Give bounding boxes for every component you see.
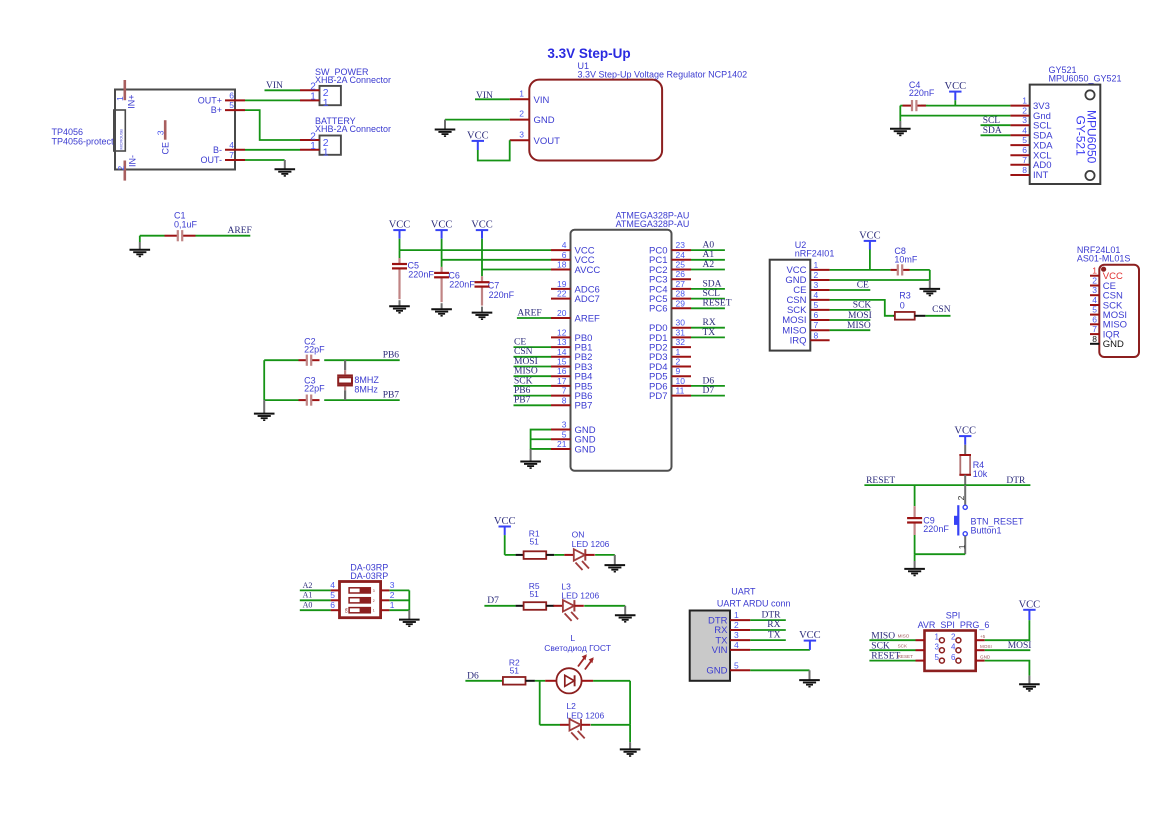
DA-03RP slide switch 2 <box>349 598 370 603</box>
BATTERY pin 2 <box>300 139 320 141</box>
svg-text:GND: GND <box>534 115 555 126</box>
GY521 pin 8 INT <box>1010 174 1029 176</box>
resistor R4 10k <box>964 445 966 455</box>
ATMEGA pin 30 PD0 <box>672 327 692 329</box>
svg-text:24: 24 <box>676 250 686 260</box>
wire VCC net to ATMEGA pin 18 AVCC <box>482 269 551 271</box>
ATMEGA pin 6 VCC <box>551 259 571 261</box>
svg-text:1: 1 <box>373 609 375 613</box>
svg-text:VIN: VIN <box>712 645 728 656</box>
GY521 pin 1 3V3 <box>1010 105 1029 107</box>
svg-text:MOSI: MOSI <box>980 644 992 649</box>
wire CSN from U2 pin 4 to R3 <box>830 300 894 316</box>
UART pin 2 RX <box>730 629 750 631</box>
ATMEGA pin 27 PC4 <box>672 288 692 290</box>
UART pin 1 DTR <box>730 619 750 621</box>
svg-text:A2: A2 <box>303 581 313 590</box>
svg-text:22pF: 22pF <box>304 384 325 394</box>
wire U1 VOUT to VCC <box>478 140 510 160</box>
svg-text:A2: A2 <box>703 260 715 270</box>
svg-text:6: 6 <box>1022 145 1027 155</box>
ATMEGA pin 26 PC3 <box>672 278 692 280</box>
svg-text:D7: D7 <box>703 386 715 396</box>
ATMEGA pin 7 PB6 <box>551 395 571 397</box>
svg-text:5: 5 <box>330 590 335 600</box>
ATMEGA pin 18 AVCC <box>551 269 571 271</box>
TP4056 pin 2 IN- (bottom) <box>124 161 127 181</box>
svg-text:2: 2 <box>956 495 966 500</box>
svg-text:17: 17 <box>557 376 567 386</box>
NRF24L01 pin 6 MISO <box>1090 323 1099 325</box>
svg-text:5: 5 <box>562 429 567 439</box>
TP4056 pin 3 CE (middle) <box>164 120 167 140</box>
NRF24L01 pin 5 MOSI <box>1090 314 1099 316</box>
ATMEGA pin 8 PB7 <box>551 404 571 406</box>
GY521 pin 6 XCL <box>1010 154 1029 156</box>
svg-text:0: 0 <box>900 300 905 310</box>
ground at C6 <box>441 303 443 309</box>
svg-text:2: 2 <box>814 270 819 280</box>
svg-text:A1: A1 <box>703 250 715 260</box>
NRF24L01 pin 4 SCK <box>1090 304 1099 306</box>
svg-text:AVR_SPI_PRG_6: AVR_SPI_PRG_6 <box>918 620 990 630</box>
svg-text:7: 7 <box>814 320 819 330</box>
svg-text:3: 3 <box>519 129 524 139</box>
svg-text:4: 4 <box>814 290 819 300</box>
wire DA-03RP ground bus vertical <box>408 590 410 610</box>
svg-text:DTR: DTR <box>762 610 782 620</box>
ATMEGA pin 13 PB1 <box>551 346 571 348</box>
svg-text:CE: CE <box>160 142 170 155</box>
IC U3 TP4056 battery charger box <box>115 90 235 170</box>
svg-text:PB7: PB7 <box>575 401 593 412</box>
svg-text:1: 1 <box>957 544 967 549</box>
U2 pin 1 VCC <box>810 269 829 271</box>
U2 pin 4 CSN <box>810 299 829 301</box>
SPI header circle pin 3 <box>939 648 944 653</box>
wire ATMEGA GND pins to ground <box>531 430 551 449</box>
capacitor C9 220nF <box>914 485 916 506</box>
svg-text:UART: UART <box>731 587 756 597</box>
svg-text:31: 31 <box>676 327 686 337</box>
GY521 pin 5 XDA <box>1010 144 1029 146</box>
svg-text:3: 3 <box>1022 115 1027 125</box>
wire D7 to R5 <box>484 605 515 607</box>
svg-text:51: 51 <box>510 666 520 676</box>
ATMEGA pin 12 PB0 <box>551 336 571 338</box>
NRF24L01 pin 1 VCC <box>1090 275 1099 277</box>
svg-text:SPI: SPI <box>946 611 961 621</box>
ATMEGA pin 23 PC0 <box>672 249 692 251</box>
svg-text:AREF: AREF <box>575 313 601 324</box>
svg-text:MISO: MISO <box>871 631 895 641</box>
svg-text:CSN: CSN <box>932 305 951 315</box>
svg-text:RX: RX <box>767 620 780 630</box>
SPI pin stub left SCK <box>916 649 925 651</box>
wire net D7 from ATMEGA <box>691 395 725 397</box>
svg-text:8: 8 <box>1022 165 1027 175</box>
svg-text:3: 3 <box>156 130 166 135</box>
svg-text:220nF: 220nF <box>923 524 949 534</box>
svg-text:11: 11 <box>676 386 685 396</box>
svg-text:1: 1 <box>390 600 395 610</box>
svg-text:5: 5 <box>734 660 739 670</box>
GY521 pin 7 AD0 <box>1010 164 1029 166</box>
wire net A1 from ATMEGA <box>691 259 725 261</box>
svg-text:21: 21 <box>557 439 567 449</box>
ATMEGA pin 16 PB4 <box>551 375 571 377</box>
wire net SDA from ATMEGA <box>691 288 725 290</box>
wire B+ to BATTERY pin 2 <box>245 110 300 140</box>
svg-text:LED 1206: LED 1206 <box>566 711 604 721</box>
ATMEGA pin 22 ADC7 <box>551 298 571 300</box>
svg-text:7: 7 <box>229 150 234 160</box>
svg-text:1: 1 <box>323 97 329 109</box>
ATMEGA pin 1 PD3 <box>672 356 692 358</box>
svg-text:2: 2 <box>734 620 739 630</box>
svg-text:26: 26 <box>676 269 686 279</box>
U2 pin 3 CE <box>810 289 829 291</box>
wire MOSI from U2 pin 6 <box>830 319 871 321</box>
svg-text:7: 7 <box>1092 324 1097 334</box>
svg-text:VCC: VCC <box>859 230 881 241</box>
svg-text:Светодиод ГОСТ: Светодиод ГОСТ <box>544 643 611 653</box>
wire net A2 from ATMEGA <box>691 269 725 271</box>
svg-text:CSN: CSN <box>514 347 533 357</box>
svg-text:MPU6050_GY521: MPU6050_GY521 <box>1049 74 1122 84</box>
svg-text:3: 3 <box>814 280 819 290</box>
U1 pin 2 GND <box>510 119 530 121</box>
ATMEGA pin 19 ADC6 <box>551 288 571 290</box>
wire D6 to R2 <box>465 680 503 682</box>
wire VIN to U1 pin 1 <box>475 98 510 100</box>
svg-text:5: 5 <box>229 100 234 110</box>
ATMEGA pin 28 PC5 <box>672 298 692 300</box>
svg-text:GND: GND <box>980 655 991 660</box>
svg-text:4: 4 <box>229 140 234 150</box>
wire net A0 from ATMEGA <box>691 249 725 251</box>
svg-text:VCC: VCC <box>945 81 967 92</box>
connector SW_POWER XHB-2A box <box>320 86 341 105</box>
svg-text:AVCC: AVCC <box>575 265 601 276</box>
svg-text:1: 1 <box>115 96 125 101</box>
svg-text:RESET: RESET <box>871 652 900 662</box>
SPI pin stub right +5 <box>976 639 985 641</box>
connector NRF24L01 AS01-ML01S box <box>1099 265 1139 357</box>
svg-text:CE: CE <box>857 280 869 290</box>
svg-text:27: 27 <box>676 279 686 289</box>
wire VCC to R1 <box>505 554 516 556</box>
svg-text:SCK: SCK <box>871 641 890 651</box>
wire RESET to DTR horizontal <box>864 484 1030 486</box>
svg-text:3: 3 <box>562 420 567 430</box>
svg-text:SCK: SCK <box>898 644 908 649</box>
svg-text:TP4056: TP4056 <box>52 127 84 137</box>
wire net MOSI to ATMEGA <box>514 366 552 368</box>
svg-text:VCC: VCC <box>1019 599 1041 610</box>
wire net RX from ATMEGA <box>691 327 725 329</box>
svg-text:8: 8 <box>1092 334 1097 344</box>
svg-text:AS01-ML01S: AS01-ML01S <box>1077 254 1131 264</box>
wire U2 VCC to C8 <box>830 269 891 271</box>
svg-text:GND: GND <box>1103 339 1124 350</box>
svg-text:TX: TX <box>768 630 781 640</box>
svg-text:VCC: VCC <box>389 220 411 231</box>
GY521 pin 4 SDA <box>1010 134 1029 136</box>
wire LED to ground row1 <box>595 554 615 556</box>
svg-text:VOUT: VOUT <box>534 136 561 147</box>
svg-text:6: 6 <box>1092 314 1097 324</box>
svg-text:RESET: RESET <box>866 476 895 486</box>
wire OUT- to ground <box>245 159 285 161</box>
wire net SCK to ATMEGA <box>514 385 552 387</box>
wire net RESET to SPI <box>869 660 915 662</box>
ATMEGA pin 31 PD1 <box>672 336 692 338</box>
SPI header circle pin 1 <box>939 638 944 643</box>
wire DA-03RP pin 3 to ground bus <box>389 589 409 591</box>
wire SDA to GY521 pin 4 <box>981 134 1011 136</box>
wire net CE to ATMEGA <box>514 346 552 348</box>
svg-text:1: 1 <box>310 92 316 103</box>
svg-text:D7: D7 <box>487 596 499 606</box>
ATMEGA pin 29 PC6 <box>672 307 692 309</box>
ground at TP4056 OUT- <box>284 160 286 169</box>
svg-text:29: 29 <box>676 298 686 308</box>
ground at GY521 <box>899 121 901 129</box>
op-amp U1 NCP1402 body <box>529 80 662 161</box>
svg-text:3: 3 <box>373 589 375 593</box>
ATMEGA pin 10 PD6 <box>672 385 692 387</box>
wire DA-03RP pin 1 to ground bus <box>389 609 409 611</box>
button BTN_RESET Button1 <box>964 485 966 505</box>
svg-text:51: 51 <box>529 589 539 599</box>
svg-text:9: 9 <box>676 366 681 376</box>
svg-text:3.3V Step-Up: 3.3V Step-Up <box>547 46 630 61</box>
wire net MISO to ATMEGA <box>514 375 552 377</box>
wire PB6 crystal top <box>264 359 298 361</box>
svg-text:D6: D6 <box>703 376 715 386</box>
GY521 mounting hole bottom <box>1085 171 1094 180</box>
svg-text:5: 5 <box>1022 135 1027 145</box>
IC U? ATMEGA328P-AU body <box>571 230 672 471</box>
svg-text:MOSI: MOSI <box>1008 641 1032 651</box>
svg-text:22pF: 22pF <box>304 345 325 355</box>
crystal Y1 8MHZ <box>344 360 346 370</box>
ATMEGA pin 24 PC1 <box>672 259 692 261</box>
UART pin 3 TX <box>730 639 750 641</box>
svg-text:6: 6 <box>814 310 819 320</box>
svg-text:INT: INT <box>1033 170 1049 181</box>
svg-text:PD7: PD7 <box>649 391 667 402</box>
wire DA-03RP pin 2 to ground bus <box>389 599 409 601</box>
svg-text:VCC: VCC <box>467 130 489 141</box>
TP4056 pin 4 B- <box>225 149 245 151</box>
DA-03RP slide switch 3 <box>349 608 370 613</box>
svg-text:25: 25 <box>676 260 686 270</box>
svg-text:AREF: AREF <box>517 308 541 318</box>
ATMEGA pin 15 PB3 <box>551 366 571 368</box>
SPI pin stub right MOSI <box>976 649 985 651</box>
ground at C7 <box>481 307 483 313</box>
svg-text:SCL: SCL <box>703 289 721 299</box>
ATMEGA pin 32 PD2 <box>672 346 692 348</box>
SPI header circle pin 5 <box>939 658 944 663</box>
svg-text:OUT+: OUT+ <box>198 95 222 105</box>
svg-text:23: 23 <box>676 240 686 250</box>
svg-text:10: 10 <box>676 376 686 386</box>
GY521 mounting hole top <box>1085 90 1094 99</box>
SPI header circle pin 6 <box>956 658 961 663</box>
TP4056 pin 6 OUT+ <box>225 99 245 101</box>
wire SCK from U2 pin 5 <box>830 309 871 311</box>
wire net RESET from ATMEGA <box>691 307 725 309</box>
svg-text:VCC: VCC <box>471 220 493 231</box>
ATMEGA pin 2 PD4 <box>672 366 692 368</box>
SPI pin stub right GND <box>976 660 985 662</box>
DA-03RP pin 2 <box>381 599 390 601</box>
svg-text:LED 1206: LED 1206 <box>572 539 610 549</box>
svg-text:SCK: SCK <box>514 376 533 386</box>
svg-text:7: 7 <box>562 386 567 396</box>
svg-text:GND: GND <box>575 444 596 455</box>
wire VCC net to ATMEGA pin 6 <box>442 259 551 261</box>
wire net PB7 to ATMEGA <box>514 404 552 406</box>
svg-text:6: 6 <box>951 653 956 662</box>
ATMEGA pin 20 AREF <box>551 317 571 319</box>
svg-text:VCC: VCC <box>431 220 453 231</box>
wire MOSI from SPI <box>985 649 1031 651</box>
wire C4 left down to ground <box>899 106 901 121</box>
ground at SPI <box>1028 676 1030 685</box>
svg-text:6: 6 <box>229 90 234 100</box>
svg-text:PB7: PB7 <box>383 390 400 400</box>
wire net CSN to ATMEGA <box>514 356 552 358</box>
svg-text:5: 5 <box>1092 305 1097 315</box>
svg-text:PB6: PB6 <box>383 351 400 361</box>
U2 pin 6 MOSI <box>810 319 829 321</box>
NRF24L01 pin1 marker dot <box>1101 267 1106 272</box>
ground at DA-03RP <box>408 610 410 619</box>
svg-text:6: 6 <box>330 600 335 610</box>
wire net TX from ATMEGA <box>691 336 725 338</box>
wire C9 bottom to button bottom <box>915 553 966 555</box>
svg-text:XHB-2A Connector: XHB-2A Connector <box>315 124 391 134</box>
svg-text:CE: CE <box>514 338 526 348</box>
ground at row1 LED <box>614 555 616 565</box>
SPI header circle pin 2 <box>956 638 961 643</box>
svg-text:AREF: AREF <box>228 226 252 236</box>
wire net A1 to DA-03RP <box>300 599 331 601</box>
wire SCL to GY521 pin 3 <box>981 124 1011 126</box>
svg-text:R3: R3 <box>899 291 911 301</box>
DA-03RP pin 3 <box>381 589 390 591</box>
ground at C9 <box>914 554 916 561</box>
LED L circular GOST symbol <box>545 680 556 682</box>
svg-text:2: 2 <box>519 109 524 119</box>
svg-text:22: 22 <box>557 289 567 299</box>
TP4056 pin 7 OUT- <box>225 159 245 161</box>
svg-text:220nF: 220nF <box>408 270 434 280</box>
svg-text:16: 16 <box>557 366 567 376</box>
wire VCC net to ATMEGA pin 4 <box>400 249 552 251</box>
svg-text:RX: RX <box>703 318 716 328</box>
SW_POWER pin 2 <box>300 89 320 91</box>
svg-text:10k: 10k <box>973 469 988 479</box>
svg-text:2: 2 <box>390 590 395 600</box>
wire net RX from UART <box>750 629 786 631</box>
svg-text:L: L <box>570 633 575 643</box>
svg-text:DTR: DTR <box>1006 476 1026 486</box>
svg-text:7: 7 <box>1022 155 1027 165</box>
ground at crystal <box>263 400 265 414</box>
svg-text:RESET: RESET <box>703 299 732 309</box>
svg-text:220nF: 220nF <box>449 280 475 290</box>
svg-text:B+: B+ <box>211 105 222 115</box>
TP4056 pin 1 IN+ (top) <box>124 80 127 100</box>
SPI pin stub left MISO <box>916 639 925 641</box>
svg-text:PB7: PB7 <box>514 396 531 406</box>
ground at U1 pin 2 <box>444 120 446 130</box>
DA-03RP slide switch 1 <box>349 588 370 593</box>
svg-text:30: 30 <box>676 318 686 328</box>
DA-03RP pin 6 <box>331 609 340 611</box>
svg-text:VCC: VCC <box>494 516 516 527</box>
svg-text:28: 28 <box>676 289 686 299</box>
svg-text:4: 4 <box>951 642 956 651</box>
svg-text:+5: +5 <box>980 634 986 639</box>
U2 pin 2 GND <box>810 279 829 281</box>
wire MISO from U2 pin 7 <box>830 329 871 331</box>
GY521 pin 2 Gnd <box>1010 115 1029 117</box>
svg-text:B-: B- <box>213 145 222 155</box>
wire VIN from UART to VCC <box>750 649 810 651</box>
ground at U2 <box>929 280 931 289</box>
UART pin 5 GND <box>730 669 750 671</box>
svg-text:2: 2 <box>1022 106 1027 116</box>
svg-text:2: 2 <box>1092 276 1097 286</box>
DA-03RP pin 1 <box>381 609 390 611</box>
module U? GY521 MPU6050 box <box>1030 85 1101 184</box>
svg-text:UART ARDU conn: UART ARDU conn <box>717 599 791 609</box>
svg-text:20: 20 <box>557 308 567 318</box>
svg-text:15: 15 <box>557 357 567 367</box>
SPI pin stub left RESET <box>916 660 925 662</box>
svg-text:4: 4 <box>562 240 567 250</box>
svg-text:5: 5 <box>934 653 939 662</box>
U1 pin 1 VIN <box>510 98 530 100</box>
wire L3 to ground <box>584 605 625 607</box>
U2 pin 5 SCK <box>810 309 829 311</box>
wire CSN from R3 <box>925 315 950 317</box>
svg-text:XHB-2A Connector: XHB-2A Connector <box>315 75 391 85</box>
svg-text:8MHz: 8MHz <box>354 385 378 395</box>
svg-text:nRF24I01: nRF24I01 <box>795 249 835 259</box>
wire U2 GND <box>830 279 930 281</box>
svg-text:MOSI: MOSI <box>514 357 538 367</box>
svg-text:A0: A0 <box>703 241 715 251</box>
svg-text:13: 13 <box>557 337 567 347</box>
ground at C5 <box>399 300 401 306</box>
svg-text:4: 4 <box>734 640 739 650</box>
svg-text:19: 19 <box>557 279 567 289</box>
wire CE from U2 pin 3 <box>830 289 871 291</box>
wire junction to L2 row <box>539 681 541 725</box>
svg-text:10mF: 10mF <box>894 254 918 264</box>
ground at ATMEGA <box>530 449 532 462</box>
svg-text:IN+: IN+ <box>127 94 137 108</box>
svg-text:LED 1206: LED 1206 <box>561 591 599 601</box>
NRF24L01 pin 7 IQR <box>1090 333 1099 335</box>
